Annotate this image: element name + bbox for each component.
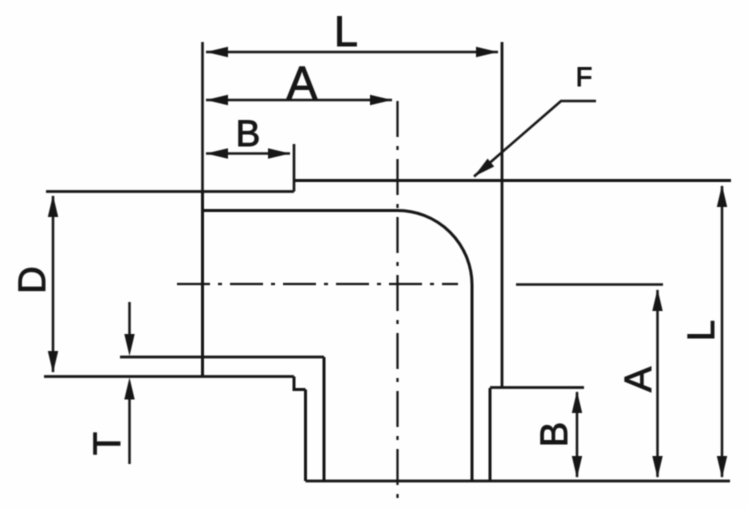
dimension line B (top) bbox=[206, 152, 290, 155]
inner bore top line and corner radius bbox=[203, 210, 473, 286]
right step line (with B-dim right extension) bbox=[490, 386, 584, 389]
vertical centerline (dash-dot) bbox=[396, 101, 398, 499]
arrowhead F leader bbox=[474, 159, 494, 177]
step-up edge at x=294 (with B-dim right extension above) bbox=[293, 144, 296, 192]
arrowhead B right bottom bbox=[572, 456, 582, 478]
leader line F bbox=[474, 101, 596, 177]
arrowhead D top bbox=[48, 195, 58, 217]
arrowhead L right bottom bbox=[717, 456, 727, 478]
arrowhead L top right bbox=[476, 47, 498, 57]
svg-text:B: B bbox=[236, 113, 261, 154]
svg-text:B: B bbox=[534, 422, 576, 447]
svg-text:A: A bbox=[287, 57, 318, 109]
inner bore right vertical bbox=[471, 285, 474, 481]
corner step at bottom-left of body bbox=[294, 377, 306, 390]
dimension line A (top) bbox=[206, 99, 392, 102]
arrowhead A top right bbox=[370, 95, 392, 105]
svg-text:A: A bbox=[618, 366, 660, 392]
arrowhead L top left bbox=[206, 47, 228, 57]
svg-text:F: F bbox=[576, 62, 593, 92]
bottom wall outer line (with D/T bottom extension) bbox=[44, 375, 294, 378]
extension line: left vertical (for L, A, B top dims) bbox=[201, 42, 204, 191]
svg-text:T: T bbox=[87, 432, 129, 455]
dimension line T upper segment bbox=[128, 302, 131, 336]
arrowhead T upper (points down) bbox=[124, 334, 134, 356]
fitting outer right edge (extends up as L-dim extension) bbox=[501, 42, 504, 388]
arrowhead B right top bbox=[572, 391, 582, 413]
bottom outlet outer-right vertical bbox=[489, 388, 492, 481]
dimension line A (right) bbox=[656, 290, 659, 477]
arrowhead B top left bbox=[206, 148, 228, 158]
arrowhead A right top bbox=[652, 289, 662, 311]
svg-text:D: D bbox=[12, 266, 54, 293]
arrowhead D bottom bbox=[48, 351, 58, 373]
dimension line D (left) bbox=[52, 196, 55, 372]
horizontal centerline extension (solid, to A-dim) bbox=[516, 283, 663, 286]
bottom opening face line (extends right as extension for A, B, L dims) bbox=[306, 480, 731, 483]
arrowhead A top left bbox=[206, 95, 228, 105]
arrowhead A right bottom bbox=[652, 456, 662, 478]
svg-text:L: L bbox=[681, 320, 723, 341]
svg-text:L: L bbox=[334, 8, 358, 56]
fitting plain-end top outer line (with D top extension) bbox=[46, 190, 294, 193]
arrowhead L right top bbox=[717, 185, 727, 207]
arrowhead B top right bbox=[268, 148, 290, 158]
arrowhead T lower (points up) bbox=[124, 378, 134, 400]
dimension line T lower segment bbox=[128, 398, 131, 464]
bottom wall inner line (with T top extension) bbox=[120, 356, 324, 359]
dimension line L (top) bbox=[206, 51, 498, 54]
dimension line L (right) bbox=[721, 186, 724, 477]
horizontal centerline (dash-dot) bbox=[177, 283, 458, 285]
bottom outlet inner-left vertical bbox=[323, 357, 326, 481]
dimension line B (right) bbox=[576, 392, 579, 477]
fitting left face bbox=[201, 191, 204, 376]
fitting top outer line (extends right as L-dim extension) bbox=[294, 179, 731, 182]
bottom outlet outer-left vertical bbox=[304, 390, 307, 482]
